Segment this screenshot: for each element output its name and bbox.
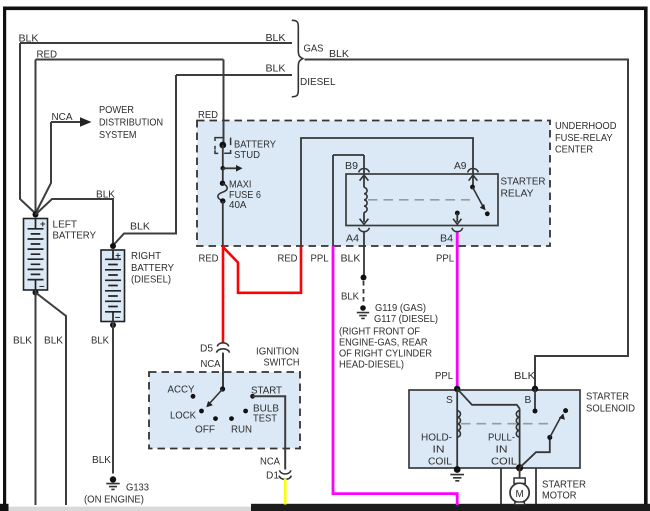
svg-text:A9: A9	[454, 161, 467, 172]
svg-text:LEFT: LEFT	[53, 220, 78, 231]
svg-text:D1: D1	[266, 471, 279, 482]
svg-text:NCA: NCA	[201, 359, 221, 370]
svg-text:+: +	[115, 251, 121, 262]
svg-text:D5: D5	[200, 344, 213, 355]
svg-text:STARTER: STARTER	[586, 392, 629, 403]
svg-text:BATTERY: BATTERY	[53, 231, 97, 242]
svg-text:BLK: BLK	[13, 336, 32, 347]
svg-text:PPL: PPL	[311, 254, 329, 265]
svg-text:PULL-: PULL-	[488, 433, 515, 444]
svg-text:PPL: PPL	[436, 254, 454, 265]
svg-text:BLK: BLK	[266, 64, 286, 75]
svg-text:SWITCH: SWITCH	[264, 358, 300, 369]
svg-text:B: B	[525, 395, 532, 406]
svg-text:BLK: BLK	[19, 33, 39, 44]
svg-text:BLK: BLK	[341, 254, 361, 265]
svg-text:COIL: COIL	[491, 457, 517, 468]
svg-text:IN: IN	[433, 445, 445, 456]
svg-text:(DIESEL): (DIESEL)	[131, 275, 171, 286]
svg-text:HEAD-DIESEL): HEAD-DIESEL)	[339, 360, 404, 371]
svg-text:POWER: POWER	[99, 105, 134, 116]
svg-text:OF RIGHT CYLINDER: OF RIGHT CYLINDER	[339, 349, 432, 360]
svg-text:PPL: PPL	[435, 371, 453, 382]
svg-text:FUSE-RELAY: FUSE-RELAY	[555, 133, 613, 144]
svg-text:CENTER: CENTER	[555, 144, 593, 155]
svg-text:BATTERY: BATTERY	[131, 263, 174, 274]
svg-text:BLK: BLK	[130, 222, 150, 233]
svg-text:BLK: BLK	[329, 49, 349, 60]
svg-text:−: −	[39, 281, 45, 292]
svg-text:STARTER: STARTER	[501, 177, 546, 188]
svg-text:RED: RED	[278, 254, 298, 265]
svg-text:BLK: BLK	[514, 371, 535, 382]
svg-text:+: +	[40, 219, 46, 230]
svg-text:B9: B9	[345, 161, 358, 172]
svg-text:BLK: BLK	[92, 455, 111, 466]
svg-text:UNDERHOOD: UNDERHOOD	[555, 121, 617, 132]
svg-text:DIESEL: DIESEL	[300, 77, 336, 88]
svg-text:(ON ENGINE): (ON ENGINE)	[84, 495, 144, 506]
svg-text:STARTER: STARTER	[542, 480, 586, 491]
svg-text:BLK: BLK	[96, 190, 115, 201]
svg-text:BATTERY: BATTERY	[234, 140, 276, 151]
svg-text:G133: G133	[126, 483, 149, 494]
svg-text:BLK: BLK	[91, 336, 109, 347]
svg-text:NCA: NCA	[260, 457, 280, 468]
svg-text:S: S	[446, 395, 453, 406]
svg-text:START: START	[251, 386, 282, 397]
svg-text:−: −	[115, 313, 121, 324]
svg-text:SOLENOID: SOLENOID	[586, 404, 635, 415]
svg-text:DISTRIBUTION: DISTRIBUTION	[99, 118, 163, 129]
svg-text:RED: RED	[199, 254, 219, 265]
svg-text:TEST: TEST	[253, 414, 277, 425]
svg-text:RIGHT: RIGHT	[131, 251, 161, 262]
svg-text:RED: RED	[37, 50, 58, 61]
svg-text:GAS: GAS	[304, 44, 324, 55]
svg-text:RUN: RUN	[231, 425, 252, 436]
svg-text:COIL: COIL	[428, 457, 452, 468]
svg-text:B4: B4	[440, 234, 453, 245]
svg-text:RELAY: RELAY	[501, 189, 534, 200]
svg-text:ACCY: ACCY	[168, 385, 195, 396]
svg-text:OFF: OFF	[195, 425, 215, 436]
svg-text:(RIGHT FRONT OF: (RIGHT FRONT OF	[339, 327, 420, 338]
svg-text:BLK: BLK	[341, 292, 359, 303]
svg-text:IGNITION: IGNITION	[256, 347, 299, 358]
svg-text:G117 (DIESEL): G117 (DIESEL)	[374, 314, 438, 325]
svg-text:HOLD-: HOLD-	[421, 433, 452, 444]
svg-text:MOTOR: MOTOR	[542, 491, 577, 502]
svg-text:G119 (GAS): G119 (GAS)	[375, 303, 426, 314]
svg-text:A4: A4	[346, 234, 359, 245]
svg-text:BLK: BLK	[266, 33, 286, 44]
svg-text:BLK: BLK	[44, 336, 63, 347]
svg-text:NCA: NCA	[52, 112, 73, 123]
svg-text:RED: RED	[198, 110, 218, 121]
svg-text:40A: 40A	[229, 200, 247, 211]
svg-text:LOCK: LOCK	[170, 411, 196, 422]
svg-text:IN: IN	[496, 445, 508, 456]
svg-text:SYSTEM: SYSTEM	[99, 130, 137, 141]
svg-text:ENGINE-GAS, REAR: ENGINE-GAS, REAR	[339, 338, 428, 349]
svg-text:STUD: STUD	[234, 150, 260, 161]
svg-text:M: M	[516, 489, 524, 500]
